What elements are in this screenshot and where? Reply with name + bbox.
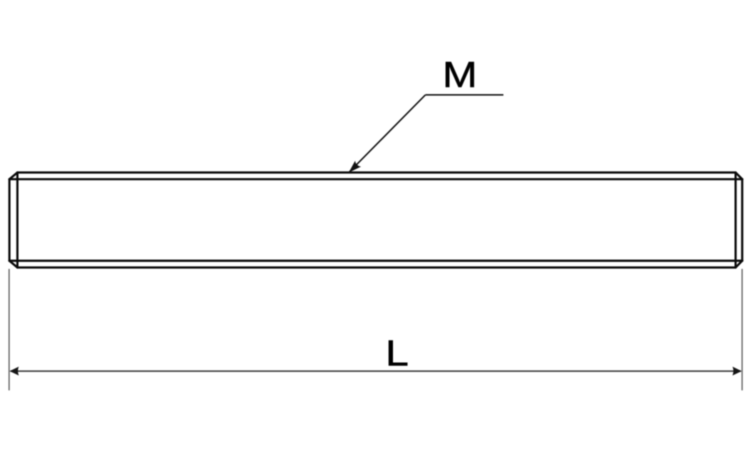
wire: left end face [8, 179, 10, 261]
wire: left chamfer edge [16, 172, 18, 267]
wire: leader diagonal [349, 95, 425, 172]
wire: top crest line [17, 171, 735, 173]
wire: chamfer diagonal bottom-right [736, 261, 743, 268]
extension line left [8, 269, 10, 391]
label M (thread size) [442, 55, 477, 96]
leader arrowhead [349, 161, 361, 173]
label L (length) [385, 333, 408, 374]
wire: top thread root line [9, 178, 742, 180]
wire: leader horizontal shelf [425, 94, 503, 96]
wire: chamfer diagonal bottom-left [9, 261, 17, 268]
svg-text:L: L [385, 333, 408, 374]
extension line right [741, 269, 743, 391]
wire: bottom crest line [17, 266, 735, 268]
wire: chamfer diagonal top-left [9, 172, 17, 179]
dimension arrowhead right [733, 367, 742, 376]
svg-text:M: M [442, 55, 477, 96]
wire: right chamfer edge [735, 172, 737, 267]
wire: bottom thread root line [9, 260, 742, 262]
dimension arrowhead left [10, 367, 19, 376]
wire: right end face [741, 179, 743, 261]
leader line for thread size M [349, 95, 503, 172]
wire: chamfer diagonal top-right [736, 172, 743, 179]
threaded rod body outline [9, 172, 742, 267]
dimension line L [10, 370, 741, 372]
